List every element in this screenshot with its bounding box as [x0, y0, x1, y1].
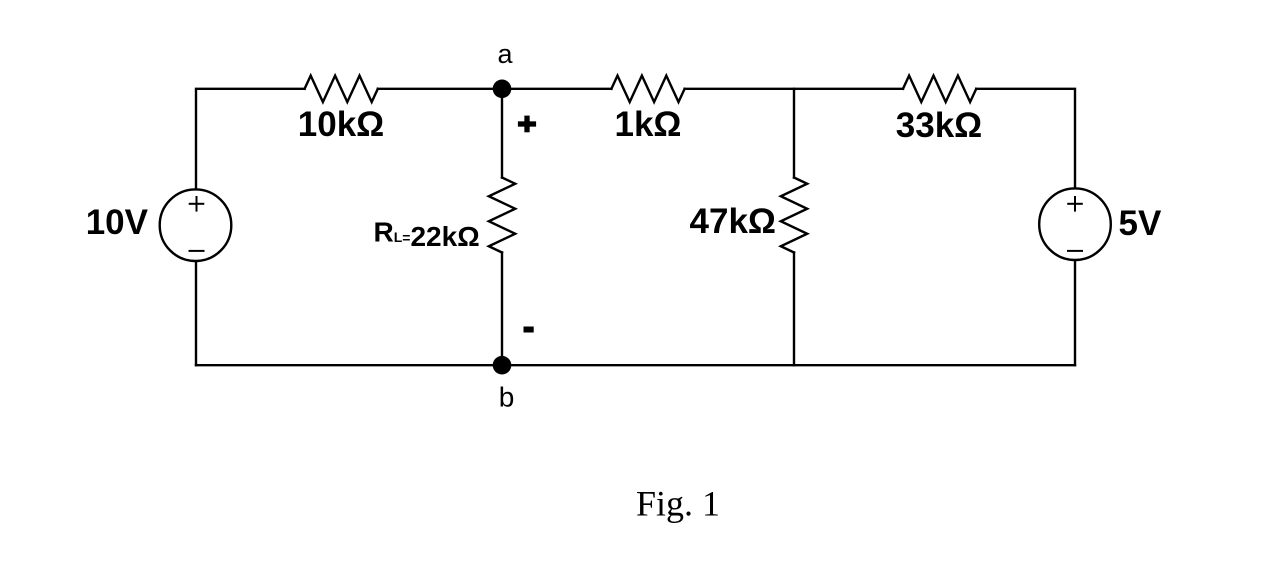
svg-text:Fig. 1: Fig. 1 [636, 484, 720, 524]
wire left below 10V source [195, 261, 197, 365]
svg-text:5V: 5V [1119, 204, 1162, 243]
svg-text:a: a [497, 39, 513, 69]
node b junction dot [493, 356, 512, 375]
wire top right corner down to 5V source [976, 89, 1075, 189]
wire middle branch top to 47k [793, 89, 795, 178]
svg-text:b: b [499, 382, 515, 413]
wire bottom [196, 364, 1075, 366]
V1 plus symbol [189, 196, 205, 212]
resistor R 10k zigzag [305, 76, 378, 102]
resistor 33k zigzag [903, 76, 976, 102]
V2 plus symbol [1067, 196, 1083, 212]
polarity minus at node b [524, 327, 534, 333]
wire top between 1k and 33k [685, 88, 903, 90]
V2 minus symbol [1067, 250, 1083, 252]
node a junction dot [493, 80, 512, 99]
wire 47k to bottom [793, 253, 795, 366]
voltage source V1 10V circle [160, 189, 232, 261]
wire right below 5V source [1074, 260, 1076, 365]
polarity plus at node a [518, 116, 536, 133]
wire node a down to RL [501, 89, 503, 178]
voltage source V2 5V circle [1039, 188, 1111, 260]
wire top left segment [196, 89, 305, 190]
resistor RL 22k vertical zigzag [489, 178, 515, 253]
resistor 47k vertical zigzag [781, 178, 807, 253]
svg-text:10kΩ: 10kΩ [298, 105, 384, 144]
svg-text:RL=22kΩ: RL=22kΩ [374, 217, 480, 253]
wire top between 10k and 1k [378, 88, 612, 90]
V1 minus symbol [189, 250, 205, 252]
resistor 1k zigzag [611, 76, 684, 102]
svg-text:10V: 10V [86, 203, 149, 242]
svg-text:1kΩ: 1kΩ [615, 105, 682, 144]
svg-text:33kΩ: 33kΩ [896, 106, 982, 145]
svg-text:47kΩ: 47kΩ [690, 202, 776, 241]
wire RL to node b [501, 253, 503, 366]
